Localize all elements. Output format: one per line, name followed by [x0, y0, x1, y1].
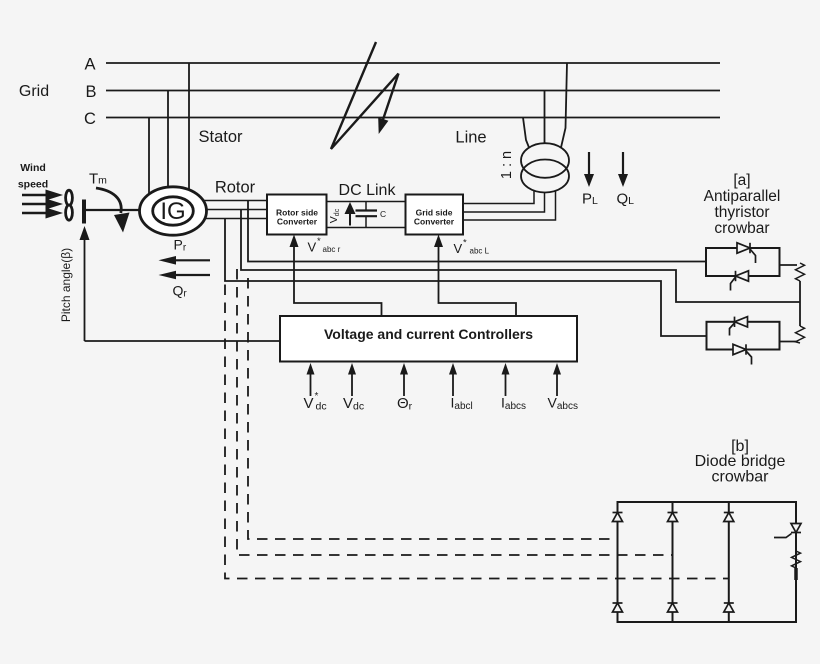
turbine hub bar: [82, 200, 86, 224]
arrow P_L: [582, 152, 598, 208]
wire grid line B: [106, 90, 720, 92]
wire line B to transformer: [544, 91, 546, 144]
wire rotor tap 2: [241, 210, 800, 303]
wire R1 to R2: [799, 281, 801, 326]
controllers box: [280, 316, 577, 362]
svg-text:speed: speed: [18, 179, 48, 191]
resistor R2: [796, 326, 805, 343]
turbine blades: [66, 190, 73, 205]
svg-text:V: V: [304, 395, 314, 412]
arrow Q_r: [174, 274, 210, 276]
wire grid line A: [106, 62, 720, 64]
svg-text:abc L: abc L: [470, 246, 490, 255]
controller input arrows: [311, 373, 558, 396]
diodes upper: [613, 513, 734, 522]
bridge leg 3: [728, 502, 730, 622]
wire stator phase B drop: [167, 91, 169, 193]
svg-text:Voltage and current Controller: Voltage and current Controllers: [324, 326, 533, 342]
svg-text:V: V: [308, 240, 317, 255]
svg-text:Converter: Converter: [414, 217, 455, 227]
thyristor bridge right: [774, 524, 801, 538]
fault symbol on grid lines: [331, 42, 399, 149]
converter grid side box: [406, 195, 464, 235]
shaft: [84, 209, 141, 211]
resistor R1: [796, 263, 805, 281]
arrow V_dc: [349, 213, 351, 226]
svg-text:[a]: [a]: [733, 172, 750, 189]
svg-text:C: C: [380, 209, 386, 219]
wire controller to grid converter: [439, 245, 517, 315]
wire rotor b: [173, 209, 267, 211]
svg-text:crowbar: crowbar: [712, 469, 770, 486]
wire dc link top: [327, 201, 406, 203]
wire loop2 to R2: [780, 341, 798, 343]
wire rotor c: [173, 218, 267, 220]
svg-text:Wind: Wind: [20, 162, 46, 174]
wire stator phase C drop: [148, 118, 150, 200]
svg-text:Diode bridge: Diode bridge: [695, 453, 786, 470]
wire line C to transformer: [523, 118, 529, 148]
dashed rotor line 3: [225, 285, 729, 579]
wire rotor tap 1: [248, 201, 706, 262]
svg-text:*: *: [317, 236, 321, 247]
svg-text:DC Link: DC Link: [339, 182, 397, 199]
svg-text:V: V: [454, 241, 463, 256]
wire controller to rotor converter: [294, 245, 382, 315]
arrow P_r: [174, 259, 210, 261]
wire line A to transformer: [561, 63, 567, 148]
dashed rotor line 2: [237, 269, 673, 555]
thick segment below Rb: [794, 568, 798, 580]
svg-text:Converter: Converter: [277, 217, 318, 227]
svg-text:crowbar: crowbar: [714, 220, 769, 237]
thyristor bottom left-pointing: [730, 317, 748, 336]
wire pitch feedback: [85, 340, 281, 342]
wire dc link bottom: [327, 227, 406, 229]
transformer 1:n: [521, 143, 569, 192]
svg-text:Line: Line: [455, 129, 486, 147]
wind arrows: [22, 190, 63, 219]
svg-text:Antiparallel: Antiparallel: [704, 188, 781, 205]
capacitor C: [365, 202, 367, 211]
wire rotor a: [173, 200, 267, 202]
bridge leg 2: [672, 502, 674, 622]
svg-text:*: *: [463, 238, 467, 249]
wire transformer output b: [463, 193, 545, 213]
crowbar a top loop: [706, 248, 780, 276]
generator IG: [140, 187, 207, 235]
crowbar a bottom loop: [707, 322, 780, 350]
svg-text:abc r: abc r: [323, 245, 341, 254]
pitch angle arrow: [84, 237, 86, 341]
svg-text:thyristor: thyristor: [714, 204, 769, 221]
wire loop1 to R1: [780, 264, 798, 266]
svg-text:IG: IG: [160, 198, 185, 225]
torque arrow: [96, 188, 121, 213]
svg-text:Pitch angle(β): Pitch angle(β): [59, 248, 73, 322]
converter rotor side box: [267, 195, 327, 235]
svg-text:1 : n: 1 : n: [499, 151, 515, 179]
wire transformer output c: [463, 191, 556, 220]
svg-text:Rotor: Rotor: [215, 179, 256, 197]
thyristor top right-pointing: [737, 243, 756, 263]
svg-text:Stator: Stator: [198, 128, 243, 146]
wire rotor tap 3: [225, 219, 707, 337]
svg-text:A: A: [84, 56, 95, 74]
thyristor top left-pointing: [731, 271, 749, 291]
svg-text:C: C: [84, 110, 96, 128]
diode bridge outline: [618, 502, 797, 622]
arrow Q_L: [617, 152, 635, 208]
diodes lower: [613, 603, 734, 612]
wire grid line C: [106, 117, 720, 119]
svg-text:dc: dc: [316, 401, 327, 413]
svg-text:Grid: Grid: [19, 83, 49, 100]
wire transformer output a: [463, 191, 534, 204]
dashed rotor line 1: [248, 278, 618, 539]
wire stator phase A drop: [188, 63, 190, 195]
svg-text:B: B: [85, 83, 96, 101]
resistor Rb: [792, 551, 801, 568]
thyristor bottom right-pointing: [733, 344, 752, 364]
